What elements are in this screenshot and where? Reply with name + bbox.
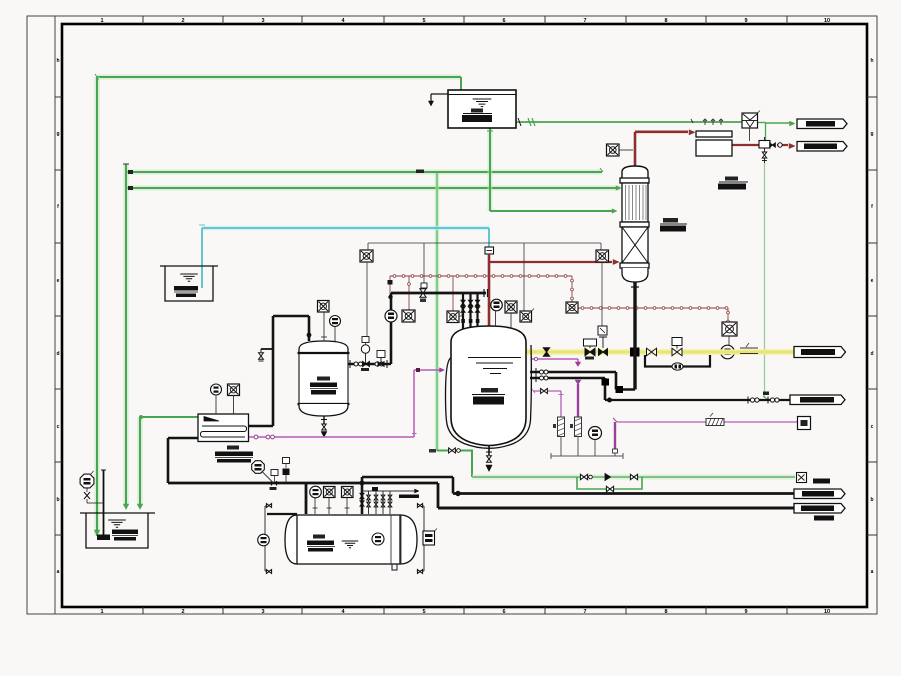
- inline static mixer on magenta line: [706, 419, 724, 426]
- pipe: hot-water loop from exchanger up to V602 top: [272, 316, 275, 426]
- reactor top box WA stem: [532, 309, 535, 312]
- black valve on yellow at reactor nozzle: [543, 348, 549, 356]
- svg-text:c: c: [871, 424, 874, 430]
- reactor R601 jacket: [446, 345, 532, 448]
- svg-text:g: g: [870, 131, 873, 137]
- signal from XV-a down to valve actuator at V602: [366, 262, 368, 338]
- tag box on drain header: [271, 470, 278, 476]
- pipe: green cooling water to plate exchanger (y=417): [137, 417, 143, 506]
- valve pair on waste header x=752: [747, 397, 749, 404]
- instrument box left of column with tap to vapour line: [607, 144, 620, 156]
- svg-text:b: b: [56, 497, 59, 503]
- pipe: dark red column overhead vapour line: [634, 132, 637, 166]
- instrument box right of inline circle: [402, 310, 415, 322]
- manifold drop to box x=453: [452, 276, 454, 311]
- left and right ruler tick marks with zone letters: [55, 96, 62, 98]
- V602 top instrument circle: [330, 316, 341, 327]
- flag: to recovery header (y=493): [794, 489, 845, 499]
- sample cooler 1 (hatched): [558, 417, 565, 437]
- check valve wedge on green header: [605, 474, 611, 481]
- interlock box XV-b (right): [596, 250, 609, 262]
- actuated valve XV on yellow x=603: [599, 337, 607, 348]
- pipe: yellow product transfer line to flag: [524, 349, 794, 354]
- pipe: exchanger hot side outlet (y=426): [248, 425, 273, 428]
- E603 box stem: [233, 396, 235, 415]
- V602 top instrument box PE: [318, 301, 330, 313]
- svg-text:b: b: [870, 497, 873, 503]
- accident pond label: [112, 530, 138, 535]
- svg-text:6: 6: [502, 609, 505, 615]
- manifold inline instrument box: [566, 302, 578, 313]
- unions on reactor outlet y=378: [535, 374, 537, 382]
- pipe: green drop from flag line to condensate valve: [765, 123, 767, 140]
- svg-text:1: 1: [100, 609, 103, 615]
- pipe: pale green condensate drain drop to waste line: [764, 163, 766, 398]
- drain stub with valve on hot-water riser: [261, 348, 273, 350]
- svg-text:10: 10: [824, 18, 830, 24]
- tank T601 label: [471, 109, 483, 113]
- column T604 dome and shell: [622, 166, 648, 178]
- globe valve on bypass: [672, 363, 683, 370]
- pipe: reactor bottom outlet with valve and arrow: [488, 446, 490, 455]
- LS box bracket: [459, 308, 462, 316]
- pipe: bright green branch x=437 (cooling water to reactor area): [436, 173, 438, 451]
- fittings on V602 discharge: [349, 360, 351, 368]
- actuated valve with square actuator on discharge: [377, 351, 385, 358]
- pipe: green riser x=126 to pond: [123, 164, 129, 506]
- column label: [663, 218, 678, 223]
- pipe: magenta jacket outlet reactor right with drop arrow: [531, 358, 578, 360]
- svg-text:2: 2: [181, 609, 184, 615]
- pipe: thick column bottoms line down through yellow: [633, 282, 636, 390]
- inner drawing frame (thick): [62, 24, 867, 607]
- V605 top instrument boxes: [324, 487, 336, 498]
- svg-text:h: h: [870, 58, 873, 64]
- svg-text:9: 9: [744, 609, 747, 615]
- unions on magenta jacket line: [254, 435, 258, 439]
- top and bottom ruler tick marks with zone numbers: [142, 16, 144, 24]
- pipe: thick magenta drop to sample cooler 2: [575, 380, 581, 385]
- gate valve 14 on dip-pipe header: [420, 289, 426, 297]
- svg-text:1: 1: [100, 18, 103, 24]
- actuated drain valve on header stub: [283, 458, 290, 464]
- accident pond dip pipe with foot: [103, 470, 105, 535]
- svg-text:2: 2: [181, 18, 184, 24]
- pipe: dark red reactor center feed drop: [488, 254, 491, 327]
- sample cooler 2 (hatched): [575, 417, 582, 437]
- pipe: thick black dip-pipe header above reactor (y=293): [391, 292, 486, 295]
- flag: to incinerator (red, y=146): [797, 142, 847, 152]
- svg-text:a: a: [871, 569, 874, 575]
- sample collection header: [551, 455, 623, 457]
- pipe: dark red branch to column bottom (y=262): [489, 261, 612, 263]
- svg-text:g: g: [56, 131, 59, 137]
- pipe: green tank outlet header to arrestor box (y=122): [516, 121, 742, 123]
- V605 valved nozzles from vent header: [368, 491, 370, 514]
- tank T601 vent line with arrow: [431, 93, 448, 95]
- pipe: V602 bottom outlet with valve into magenta line: [323, 416, 325, 424]
- small solenoid box above yellow-line valve: [598, 326, 607, 335]
- pipe: thick magenta drop x=615 to header: [614, 422, 616, 451]
- accident pond (open basin, bottom-left): [80, 513, 155, 548]
- unions on reactor outlet y=372: [535, 368, 537, 376]
- block valve on yellow x=651: [647, 348, 657, 356]
- V605 label and level: [313, 535, 325, 539]
- spectacle blind on tank outlet: [528, 118, 531, 126]
- reactor label: [481, 388, 498, 393]
- outlet instrument box on green header: [797, 473, 807, 483]
- E603 top instrument box: [228, 384, 240, 396]
- instrument box LS left of dip pipes: [447, 311, 459, 323]
- pipe: header step down x=438 and line y=508 to flag: [437, 483, 440, 508]
- svg-text:9: 9: [744, 18, 747, 24]
- pipe: magenta line y=422 to H-box: [617, 421, 797, 423]
- reactor top instrument box TE: [505, 301, 517, 313]
- V605 right bracket with valves and LT box: [423, 506, 425, 571]
- dip pipes into reactor dome with double block valves: [462, 293, 464, 331]
- svg-text:5: 5: [422, 609, 425, 615]
- condensate control valve body: [759, 141, 770, 149]
- svg-text:5: 5: [422, 18, 425, 24]
- pipe: green riser down to accident pond (left): [94, 77, 100, 536]
- svg-text:e: e: [871, 278, 874, 284]
- plate heat exchanger E603: [198, 414, 249, 442]
- octagon PI instrument near V605 with diagonal tap: [252, 461, 265, 474]
- junction squares at line merges: [602, 379, 609, 385]
- svg-text:10: 10: [824, 609, 830, 615]
- control valve with round actuator above discharge: [362, 337, 369, 343]
- pipe: dark red condensate line from condenser to flag: [732, 144, 759, 146]
- svg-text:d: d: [56, 351, 59, 357]
- flag: to waste water sump (y=400): [790, 395, 845, 405]
- instrument signal rail (top): [368, 242, 601, 244]
- svg-text:7: 7: [583, 609, 586, 615]
- pipe: magenta jacket circuit exchanger to riser: [249, 436, 414, 438]
- pipe: sample line y=391 with valve to cooler 1: [533, 390, 561, 392]
- svg-text:6: 6: [502, 18, 505, 24]
- flag: to V4 system (green, y=123): [797, 119, 847, 129]
- svg-text:7: 7: [583, 18, 586, 24]
- svg-text:d: d: [870, 351, 873, 357]
- reactor top box TE stem: [510, 313, 512, 328]
- orifice label lines after FC valve: [740, 347, 758, 349]
- valve pair on waste header x=772: [767, 397, 769, 404]
- svg-text:a: a: [57, 569, 60, 575]
- inline box on reactor feed riser: [485, 247, 494, 254]
- pipe: green drain header y=477 to outlet box: [472, 476, 795, 478]
- pipe: cyan circulating water line from pond to reactor feed box: [202, 226, 489, 231]
- left binding strip line: [54, 16, 56, 614]
- reactor top instrument circle FC: [491, 299, 503, 311]
- V605 internal instrument circle: [372, 533, 384, 545]
- pipe: long black drain header y=483 with tee into V605: [168, 482, 438, 485]
- actuated valve XV on yellow x=590: [584, 339, 597, 346]
- V605 top instrument circle M: [310, 486, 322, 498]
- pipe: reactor outlet y=372 to column-bottoms junction: [530, 371, 616, 374]
- svg-text:3: 3: [261, 609, 264, 615]
- XV box on manifold branch: [722, 322, 737, 336]
- pipe: V605 vent riser x=362 with valves: [361, 477, 364, 514]
- svg-text:8: 8: [664, 18, 667, 24]
- condenser E604 (double tube): [696, 131, 732, 137]
- valve on green header at x=584: [580, 474, 587, 479]
- svg-text:8: 8: [664, 609, 667, 615]
- V602 label: [317, 377, 330, 381]
- PSV / arrestor box above condenser: [742, 113, 758, 128]
- control valve circle on yellow line (FC): [728, 336, 730, 345]
- small tag box near valve 14: [421, 283, 427, 288]
- pipe: waste water header y=400 to flag: [605, 399, 790, 401]
- octagon instrument at accident pond: [80, 474, 94, 488]
- pipe: green circulating water return header (y=188): [127, 185, 620, 190]
- pipe: reactor outlet y=378 stepping down to waste water header: [530, 377, 605, 380]
- signal from XV-b down to yellow line valve: [601, 262, 603, 326]
- pipe: drop from header through inline circle to V602 outlet run: [390, 293, 393, 310]
- reactor R601 vessel: [451, 326, 526, 446]
- V605 extended top line: [267, 513, 297, 515]
- vessel V605 (horizontal recovery tank): [285, 515, 417, 564]
- condenser label: [725, 177, 738, 181]
- svg-text:e: e: [57, 278, 60, 284]
- V605 top instrument stems: [314, 498, 316, 515]
- V602 top nozzles: [323, 312, 325, 341]
- dotted heat-transfer manifold with flange discs: [390, 275, 572, 277]
- reactor top instrument box WA: [520, 311, 532, 322]
- circulating pond label: [174, 286, 198, 291]
- E603 label: [227, 446, 239, 450]
- pipe: exchanger cold side outlet down to drain header: [168, 437, 198, 440]
- valve on green elbow (bowtie+disc): [449, 448, 456, 453]
- circulating water pond (open basin): [160, 266, 218, 301]
- pipe: green elbow to reactor bottom header: [437, 451, 472, 478]
- pipe: green jog from arrestor to flag F1: [758, 122, 766, 124]
- vessel V602 (feed tank): [299, 341, 348, 353]
- actuated block valve on yellow x=677: [672, 338, 682, 346]
- condensate drain valve below control valve: [764, 148, 766, 163]
- V605 vent collection line with arrow: [362, 490, 414, 492]
- green bypass loop below header: [577, 477, 642, 489]
- H analyzer box at magenta line end: [798, 417, 811, 430]
- junction of column bottoms line with yellow: [631, 348, 640, 356]
- yellow line station bypass loop: [645, 355, 710, 367]
- reactor liquid level marks: [468, 358, 521, 374]
- vent arrows on green header near column: [703, 119, 707, 125]
- manifold drop to box x=409: [408, 276, 410, 310]
- manifold drop to junction x=390: [389, 276, 391, 293]
- pipe: green line from tank bottom to column: [487, 128, 492, 211]
- sample point instrument circle: [589, 427, 602, 440]
- pipe: V602 discharge run to riser (y=364): [348, 363, 391, 365]
- E603 top instruments: [211, 384, 222, 395]
- pipe: green header from tank T601 top-left corner run: [97, 74, 461, 79]
- V605 top instrument box 2: [342, 487, 354, 498]
- V605 left bracket with valves and circle: [264, 506, 266, 571]
- flag: to waste collection (y=508): [794, 504, 845, 514]
- svg-text:c: c: [57, 424, 60, 430]
- valve on green header at x=634: [630, 474, 637, 479]
- interlock box XV-a (left): [360, 250, 373, 262]
- pipe: vent line y=477 stepping down to waste header y=493.5: [362, 476, 453, 479]
- svg-text:h: h: [56, 58, 59, 64]
- pipe: green circulating water supply header (y=172): [126, 169, 602, 174]
- tank T601 (fire water tank): [448, 90, 516, 128]
- flag: to waste water system (yellow line): [794, 347, 846, 358]
- valve on green bypass: [606, 486, 613, 491]
- svg-text:3: 3: [261, 18, 264, 24]
- union and coupling after condensate valve: [770, 143, 776, 147]
